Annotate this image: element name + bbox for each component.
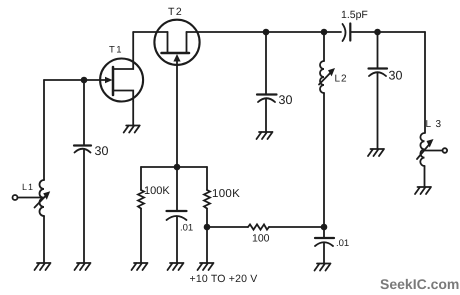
ground under C1 <box>75 263 91 270</box>
node 30 right branch <box>374 29 381 36</box>
wire T1 source down <box>132 102 134 126</box>
transistor T1 <box>100 32 143 102</box>
svg-text:1.5pF: 1.5pF <box>341 9 368 21</box>
wire right edge <box>424 32 426 133</box>
wire bottom rail <box>207 226 248 228</box>
capacitor 30 right <box>377 32 379 69</box>
capacitor 30 mid <box>265 32 267 95</box>
node L2 branch <box>321 29 328 36</box>
svg-text:30: 30 <box>95 144 109 158</box>
capacitor 30 left <box>74 144 91 146</box>
svg-text:L2: L2 <box>335 74 348 85</box>
wire top rail <box>187 31 342 33</box>
svg-text:L1: L1 <box>22 182 34 192</box>
wire L2 lower <box>323 93 325 227</box>
node T2 gate junction <box>174 164 181 171</box>
ground under L1 <box>35 263 51 270</box>
ground under 100K left <box>132 263 148 270</box>
wire L1 lower <box>43 216 45 263</box>
svg-text:30: 30 <box>389 69 403 83</box>
wire L1 upper <box>43 80 45 180</box>
capacitor .01 mid <box>176 167 178 211</box>
ground under 30 mid <box>257 132 273 139</box>
resistor 100K right <box>206 167 208 190</box>
ground under L3 <box>415 187 431 194</box>
capacitor .01 right <box>323 227 325 238</box>
capacitor 1.5pF <box>343 24 346 41</box>
ground supply <box>198 263 214 270</box>
wire T1 drain to T2 <box>133 31 167 33</box>
svg-text:30: 30 <box>279 93 293 107</box>
svg-text:100: 100 <box>252 233 270 245</box>
transistor T2 <box>154 20 199 65</box>
ground under T1 <box>124 126 140 133</box>
ground under .01 mid <box>168 263 184 270</box>
wire C1 lower <box>83 150 85 264</box>
svg-text:L3: L3 <box>426 119 446 130</box>
wire mid rail <box>141 166 207 168</box>
node junction gate rail <box>81 77 88 84</box>
wire C1 upper <box>83 80 85 146</box>
svg-text:.01: .01 <box>336 238 349 249</box>
svg-text:SeekIC.com: SeekIC.com <box>380 276 459 292</box>
resistor 100K left <box>140 167 142 190</box>
ground under .01 right <box>315 264 331 271</box>
inductor L2 <box>323 32 325 61</box>
svg-text:+10 TO +20 V: +10 TO +20 V <box>190 273 258 285</box>
wire L3 lower <box>424 166 426 187</box>
wire top rail right <box>350 31 425 33</box>
svg-text:.01: .01 <box>180 223 193 234</box>
resistor 100 <box>248 224 269 229</box>
svg-text:100K: 100K <box>212 188 240 200</box>
svg-text:100K: 100K <box>144 185 170 197</box>
svg-text:T1: T1 <box>109 45 123 56</box>
ground under 30 right <box>368 149 384 156</box>
inductor L1 <box>40 180 45 216</box>
svg-text:T2: T2 <box>168 6 183 18</box>
node 30 mid branch <box>263 29 270 36</box>
wire T2 gate down <box>176 58 178 167</box>
wire gate rail to T1 <box>44 79 106 81</box>
wire supply stub <box>206 227 208 263</box>
inductor L3 <box>420 133 424 166</box>
node bottom right junction <box>321 224 328 231</box>
node supply junction <box>204 224 211 231</box>
